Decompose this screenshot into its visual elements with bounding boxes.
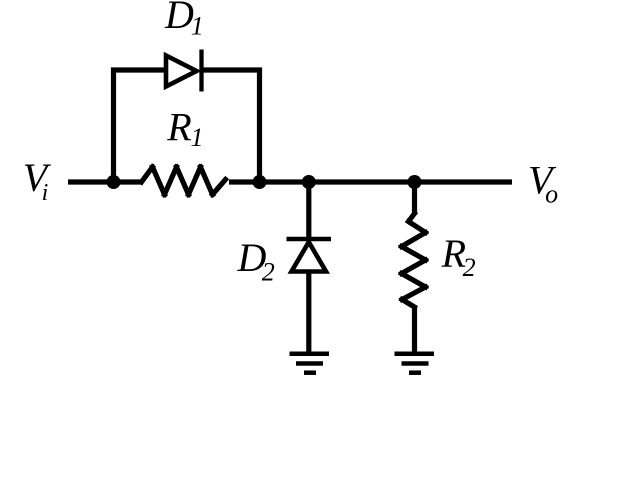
node N1 (input junction) <box>107 175 121 189</box>
ground GND2 (below R2) <box>395 354 435 373</box>
wire R1 right lead to node N2 <box>229 179 260 184</box>
label Vi (input voltage) <box>23 155 52 206</box>
node N4 (R2 branch junction) <box>408 175 422 189</box>
wire N3 to N4 <box>309 179 415 184</box>
wire left vertical of D1 loop <box>114 70 167 182</box>
node N3 (D2 branch junction) <box>302 175 316 189</box>
label R1 <box>166 105 203 152</box>
svg-text:2: 2 <box>262 257 275 286</box>
wire input lead from Vi <box>68 179 114 184</box>
wire N1 to R1 left lead <box>114 179 143 184</box>
label R2 <box>441 231 476 282</box>
resistor R2 <box>402 214 426 308</box>
wire N4 down to R2 <box>412 182 417 215</box>
svg-text:i: i <box>42 180 49 206</box>
svg-text:o: o <box>545 180 558 209</box>
label D1 <box>164 0 204 41</box>
diode D1 cathode bar <box>199 50 203 92</box>
svg-text:R: R <box>166 105 191 150</box>
ground GND1 (below D2) <box>290 354 330 373</box>
wire D2 anode to ground <box>306 272 311 353</box>
svg-text:1: 1 <box>191 123 204 152</box>
wire R2 to ground <box>412 306 417 353</box>
wire N4 to output Vo <box>415 179 513 184</box>
wire N3 down to D2 cathode <box>306 182 311 239</box>
diode D2 triangle (anode, pointing up) <box>292 242 327 272</box>
svg-text:2: 2 <box>463 253 476 282</box>
node N2 (right end of R1/D1 loop) <box>253 175 267 189</box>
diode D1 triangle (anode) <box>166 56 197 87</box>
label D2 <box>237 235 275 286</box>
label Vo (output voltage) <box>528 158 558 209</box>
diode D2 cathode bar <box>287 237 332 242</box>
wire N2 to N3 <box>260 179 310 184</box>
wire D1 to right vertical of loop <box>202 70 260 182</box>
svg-text:D: D <box>164 0 194 37</box>
resistor R1 <box>142 167 226 195</box>
svg-text:1: 1 <box>191 12 204 41</box>
